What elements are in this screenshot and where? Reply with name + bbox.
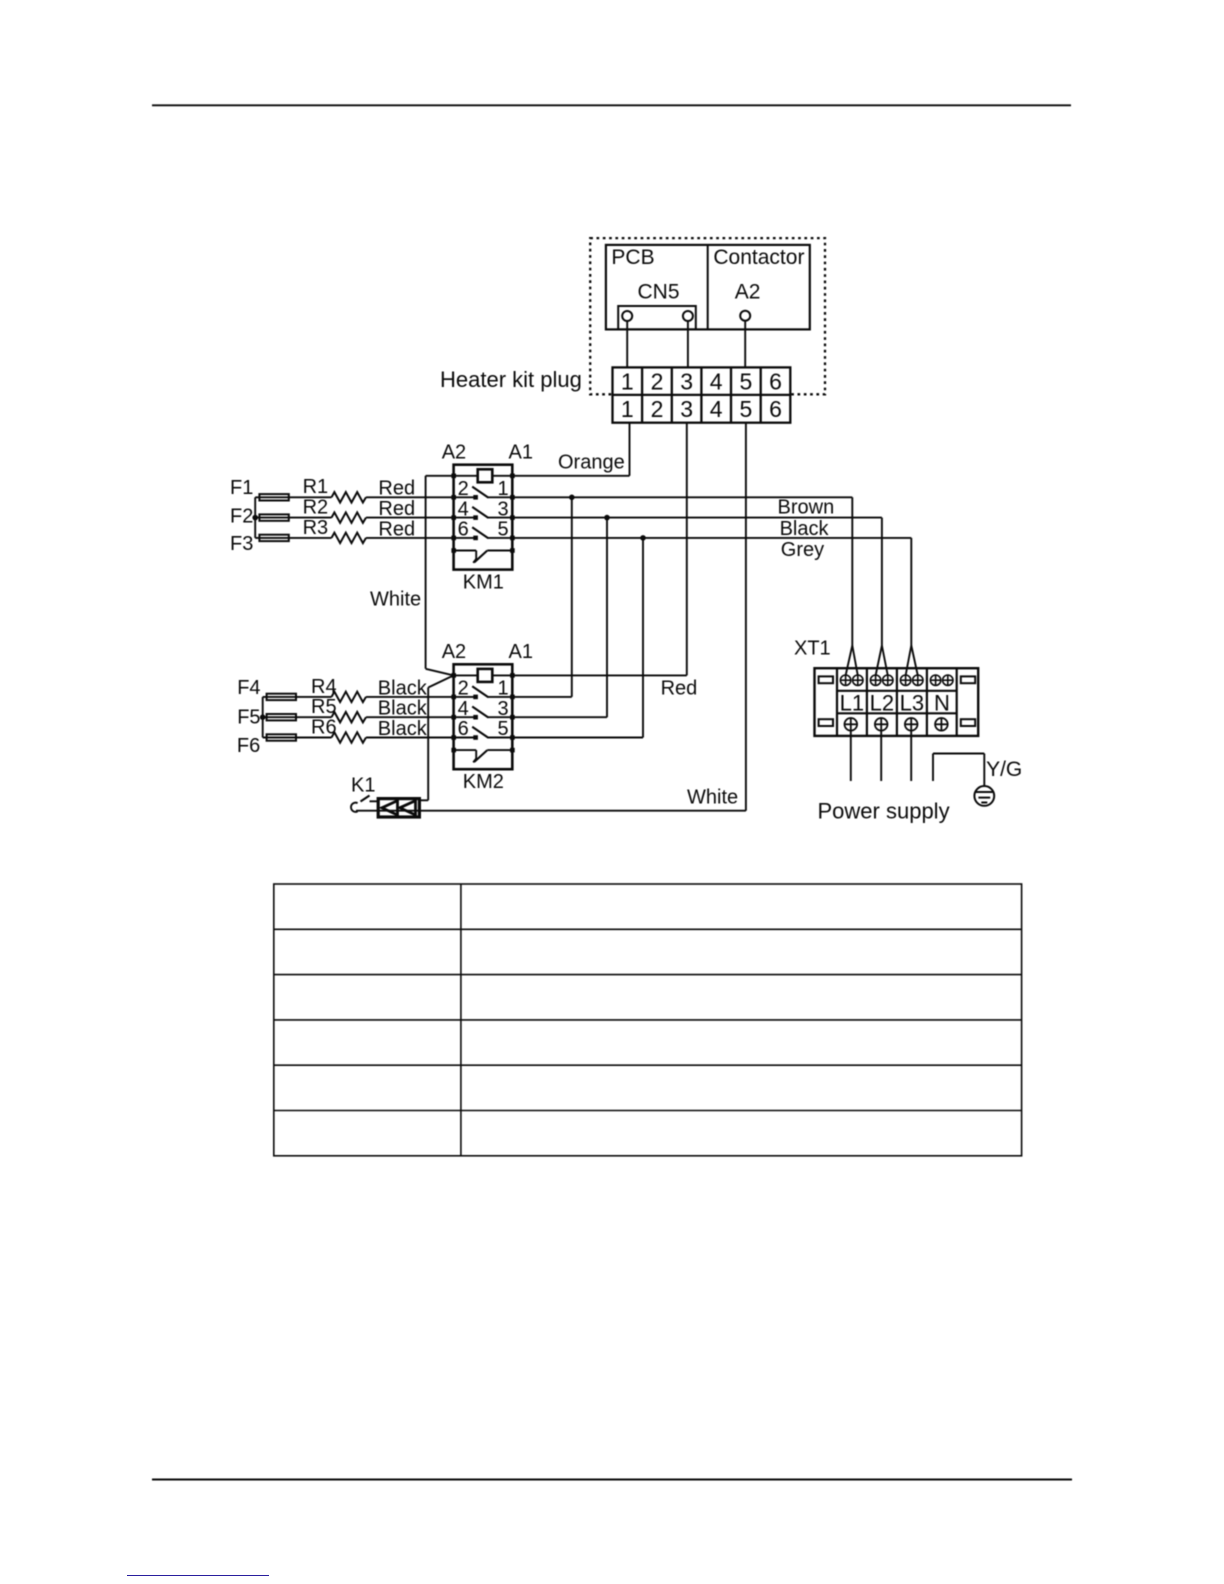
svg-text:L2: L2 [870,691,894,716]
svg-text:A1: A1 [509,442,533,464]
svg-text:F2: F2 [230,506,253,528]
svg-text:White: White [370,588,421,610]
svg-text:1: 1 [621,396,634,422]
svg-text:Orange: Orange [558,451,625,473]
svg-text:Grey: Grey [781,539,824,561]
svg-text:3: 3 [680,396,693,422]
svg-text:A2: A2 [442,442,466,464]
svg-text:Red: Red [378,478,415,500]
svg-text:Black: Black [378,698,428,720]
svg-text:PCB: PCB [611,246,654,269]
svg-text:KM2: KM2 [463,771,504,793]
svg-text:R3: R3 [303,517,329,539]
svg-text:Black: Black [780,518,830,540]
svg-text:Red: Red [661,678,698,700]
svg-text:A1: A1 [509,641,533,663]
svg-text:F6: F6 [237,735,260,757]
svg-text:Red: Red [378,498,415,520]
svg-text:Contactor: Contactor [713,246,804,269]
svg-text:4: 4 [710,368,723,394]
svg-text:White: White [687,787,738,809]
svg-text:Brown: Brown [778,497,835,519]
svg-text:F5: F5 [237,706,260,728]
svg-text:KM1: KM1 [463,572,504,594]
svg-text:3: 3 [680,368,693,394]
svg-text:2: 2 [651,368,664,394]
svg-text:2: 2 [651,396,664,422]
svg-text:F1: F1 [230,477,253,499]
svg-text:Y/G: Y/G [986,758,1022,781]
svg-text:R4: R4 [311,676,337,698]
svg-text:F4: F4 [237,677,260,699]
svg-text:R2: R2 [303,497,329,519]
svg-text:R1: R1 [303,476,329,498]
svg-text:6: 6 [769,396,782,422]
svg-text:Red: Red [378,518,415,540]
svg-text:4: 4 [710,396,723,422]
svg-text:6: 6 [769,368,782,394]
svg-text:R6: R6 [311,716,337,738]
svg-text:CN5: CN5 [637,280,679,303]
svg-text:5: 5 [740,368,753,394]
svg-text:R5: R5 [311,696,337,718]
svg-text:5: 5 [740,396,753,422]
svg-text:1: 1 [621,368,634,394]
svg-text:XT1: XT1 [794,638,831,660]
svg-text:Black: Black [378,677,428,699]
svg-text:F3: F3 [230,533,253,555]
svg-text:N: N [934,691,950,716]
svg-text:A2: A2 [735,280,761,303]
svg-text:L3: L3 [900,691,924,716]
svg-text:Heater kit plug: Heater kit plug [440,367,582,392]
svg-text:K1: K1 [351,775,375,797]
svg-text:A2: A2 [442,641,466,663]
svg-text:Power supply: Power supply [818,798,950,823]
svg-text:Black: Black [378,718,428,740]
svg-text:L1: L1 [840,691,864,716]
